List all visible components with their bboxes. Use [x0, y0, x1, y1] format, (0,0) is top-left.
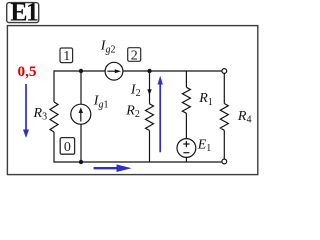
current source Ig2 circle	[105, 62, 123, 80]
blue arrow right (bottom)	[94, 167, 119, 169]
svg-text:R2: R2	[125, 104, 140, 121]
Ig1 arrow up	[80, 112, 82, 122]
resistor R3 zigzag	[50, 102, 58, 132]
wire: top left segment node1	[54, 70, 105, 72]
open terminal top	[222, 69, 227, 74]
svg-text:2: 2	[131, 49, 138, 64]
svg-text:R1: R1	[198, 91, 213, 108]
current arrow I2 on wire	[147, 89, 151, 95]
wire: Ig1 branch lower	[80, 124, 82, 162]
outer frame	[7, 26, 257, 175]
wire: R2 branch upper	[149, 71, 151, 104]
node box 1	[60, 48, 73, 63]
node box 2	[128, 48, 141, 62]
wire: top right segment	[123, 70, 222, 72]
svg-text:0,5: 0,5	[18, 63, 37, 80]
blue arrow down (left)	[25, 84, 27, 132]
svg-text:I2: I2	[130, 83, 141, 100]
svg-text:1: 1	[63, 49, 70, 64]
junction dot node2	[147, 69, 151, 73]
wire: left branch lower	[53, 132, 55, 163]
resistor R4 zigzag	[220, 104, 228, 131]
node box 0	[60, 138, 74, 155]
resistor R1 zigzag	[182, 87, 190, 113]
wire: bottom	[54, 161, 222, 163]
wire: R4 branch upper	[223, 73, 225, 103]
resistor R2 zigzag	[146, 104, 154, 131]
wire: between R1 and E1 source	[185, 113, 187, 138]
wire: below E1 source	[185, 157, 187, 162]
current source Ig1 circle	[71, 104, 91, 124]
svg-text:R4: R4	[237, 109, 252, 126]
svg-text:0: 0	[64, 140, 71, 155]
wire: R2 branch lower	[149, 131, 151, 163]
E1 plus sign	[183, 141, 189, 147]
svg-text:E1: E1	[197, 137, 212, 154]
junction dot node0 bottom	[79, 160, 83, 164]
wire: left branch upper	[53, 70, 55, 102]
wire: Ig1 branch upper	[80, 71, 82, 104]
E1 minus sign	[183, 152, 189, 154]
wire: R1/E1 branch upper	[185, 71, 187, 87]
svg-text:Ig2: Ig2	[100, 39, 116, 56]
open terminal bottom	[222, 159, 227, 164]
junction dot node1 top	[79, 69, 83, 73]
blue arrow up (middle, I2 direction)	[159, 82, 161, 152]
Ig2 arrow right	[107, 70, 117, 72]
wire: R4 branch lower	[223, 130, 225, 159]
svg-text:E1: E1	[10, 0, 38, 27]
voltage source E1 circle	[177, 139, 196, 158]
svg-text:Ig1: Ig1	[93, 94, 109, 111]
svg-text:R3: R3	[33, 106, 48, 123]
title box E1	[7, 3, 39, 23]
